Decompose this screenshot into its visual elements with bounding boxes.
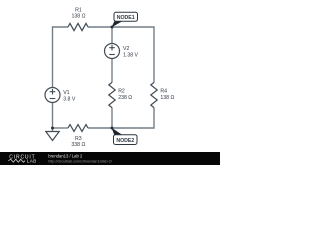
junction dot ground node	[51, 127, 54, 130]
svg-text:138 Ω: 138 Ω	[72, 14, 86, 20]
wire: V2 bottom down to R2	[111, 59, 113, 83]
node NODE2 pointer	[111, 128, 122, 135]
wire: V1 bottom down to ground junction	[52, 103, 54, 132]
svg-text:LAB: LAB	[27, 158, 37, 163]
svg-text:R2: R2	[118, 89, 125, 95]
resistor R2	[109, 82, 115, 107]
wire bottom-left: R3 left to ground junction	[53, 127, 69, 129]
svg-text:NODE2: NODE2	[116, 138, 134, 144]
resistor R4	[151, 82, 157, 107]
resistor R1	[68, 23, 88, 30]
junction dot NODE1	[111, 26, 114, 29]
svg-text:V1: V1	[63, 90, 69, 96]
wire: R4 bottom down to bottom-right corner then left to NODE2 junction	[112, 108, 154, 128]
svg-text:138 Ω: 138 Ω	[160, 95, 174, 101]
svg-text:brendan13 / Lab 2: brendan13 / Lab 2	[48, 154, 83, 159]
wire top-middle: R1 right to NODE1 junction	[88, 26, 112, 28]
svg-text:1.38 V: 1.38 V	[123, 53, 139, 59]
voltage source V1	[45, 88, 60, 103]
voltage source V2	[105, 44, 120, 59]
footer bar	[0, 152, 220, 165]
svg-text:http://circuitlab.com/c/brenda: http://circuitlab.com/c/brendan13/lab-2/	[48, 159, 113, 163]
node NODE1 box	[114, 12, 138, 21]
resistor R3	[68, 125, 88, 132]
ground	[46, 132, 59, 141]
wire top-left: from V1 top up and right to R1	[53, 27, 69, 88]
svg-text:R4: R4	[160, 89, 167, 95]
wire top-right: NODE1 junction to right branch corner and down to R4	[112, 27, 154, 82]
svg-text:338 Ω: 338 Ω	[71, 142, 85, 148]
node NODE2 box	[114, 135, 138, 145]
junction dot NODE2	[111, 127, 114, 130]
svg-text:V2: V2	[123, 46, 129, 52]
footer logo zigzag	[8, 159, 25, 162]
svg-text:238 Ω: 238 Ω	[118, 95, 132, 101]
node NODE1 pointer	[112, 21, 123, 27]
svg-text:R1: R1	[75, 7, 82, 13]
wire middle: NODE1 junction down to V2	[111, 27, 113, 44]
svg-text:NODE1: NODE1	[117, 15, 135, 21]
svg-text:3.8 V: 3.8 V	[63, 97, 76, 103]
wire bottom: NODE2 junction left to R3	[88, 127, 112, 129]
wire: R2 bottom down to NODE2 junction	[111, 108, 113, 128]
